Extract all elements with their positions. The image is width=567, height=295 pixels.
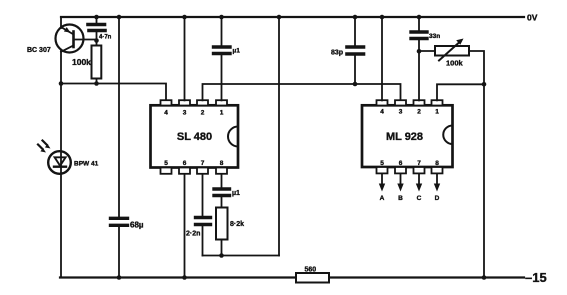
- pin box U2 top pin4: [377, 100, 388, 115]
- svg-text:1: 1: [435, 109, 439, 116]
- node junction dot rail/C1: [94, 15, 99, 20]
- svg-text:4·7n: 4·7n: [99, 34, 112, 40]
- node junction dot rail/pin3: [182, 15, 187, 20]
- node junction dot R2 bottom: [219, 253, 224, 258]
- pin box U2 top pin2: [414, 100, 425, 115]
- wire pot left lead: [419, 50, 435, 52]
- resistor R1 100k: [92, 41, 102, 84]
- svg-text:4: 4: [164, 109, 168, 116]
- node junction dot rail/C3: [219, 15, 224, 20]
- capacitor C7 33n: [411, 17, 427, 100]
- svg-text:8: 8: [220, 160, 224, 167]
- node junction dot C7 bottom / pot branch: [417, 49, 422, 54]
- svg-text:B: B: [398, 195, 403, 202]
- node junction dot 68u bottom rail: [117, 275, 122, 280]
- capacitor C6 83p: [347, 17, 364, 84]
- pin box U1 top pin3: [179, 100, 190, 116]
- wire -15 bottom rail: [60, 276, 524, 278]
- svg-text:µ1: µ1: [233, 48, 241, 55]
- wire U1 pin2 to U2 pin3 signal: [203, 84, 401, 100]
- svg-text:C: C: [417, 195, 422, 202]
- svg-text:3: 3: [183, 109, 187, 116]
- svg-text:68µ: 68µ: [130, 221, 144, 230]
- svg-text:2·2n: 2·2n: [186, 230, 200, 237]
- node junction dot rail/U2 pin4: [380, 15, 385, 20]
- wire 0V drop x279: [278, 17, 280, 256]
- svg-text:1: 1: [220, 109, 224, 116]
- wire decoupling net y255.5: [203, 255, 280, 257]
- resistor R3 560 in bottom rail: [296, 273, 329, 283]
- node junction dot rail/68u top: [117, 15, 122, 20]
- svg-text:83p: 83p: [331, 50, 343, 57]
- svg-text:5: 5: [380, 160, 384, 167]
- wire base lead to node: [75, 39, 97, 41]
- pin box U1 bottom pin5: [161, 160, 172, 174]
- svg-text:BC 307: BC 307: [27, 47, 51, 54]
- svg-text:ML 928: ML 928: [386, 131, 423, 143]
- node junction dot pot net rail: [482, 275, 487, 280]
- node junction dot collector net: [59, 81, 64, 86]
- capacitor C5 u1 on pin8: [214, 175, 230, 208]
- svg-text:560: 560: [305, 267, 317, 274]
- output arrow D pin8: [434, 175, 440, 203]
- wire U1 pin3 to 0V rail: [184, 17, 186, 100]
- svg-text:6: 6: [399, 160, 403, 167]
- pin box U2 top pin3: [395, 100, 406, 115]
- wire pot right to -15 rail: [469, 51, 484, 278]
- pin box U2 bottom pin7: [414, 160, 425, 173]
- svg-text:BPW 41: BPW 41: [74, 160, 99, 167]
- svg-text:D: D: [435, 195, 440, 202]
- svg-text:0V: 0V: [527, 13, 538, 23]
- photodiode D1 BPW41: [48, 84, 71, 278]
- svg-text:8·2k: 8·2k: [230, 221, 244, 228]
- svg-text:100k: 100k: [72, 57, 91, 67]
- svg-text:8: 8: [435, 160, 439, 167]
- svg-text:6: 6: [183, 160, 187, 167]
- svg-text:SL 480: SL 480: [177, 131, 212, 143]
- svg-text:4: 4: [380, 109, 384, 116]
- wire U2 pin4 to 0V rail: [381, 17, 383, 100]
- capacitor C3 u1 on pin1: [214, 17, 231, 100]
- light arrow 1: [38, 145, 46, 153]
- pin box U2 bottom pin8: [432, 160, 443, 173]
- wire U2 pin1 branch: [437, 84, 484, 100]
- svg-text:33n: 33n: [429, 33, 440, 40]
- node junction dot rail/C6: [353, 15, 358, 20]
- capacitor C2 68u vertical line: [111, 17, 128, 278]
- resistor R2 8.2k: [216, 208, 228, 256]
- wire 0V top rail: [61, 16, 524, 18]
- op-amp U1 SL480 body: [151, 105, 239, 167]
- output arrow A pin5: [379, 175, 385, 203]
- output arrow C pin7: [416, 175, 422, 203]
- pin box U2 bottom pin6: [395, 160, 406, 173]
- node junction dot pin6 rail: [182, 275, 187, 280]
- capacitor C1 4.7n: [88, 17, 105, 41]
- svg-text:2: 2: [417, 109, 421, 116]
- node junction dot C6 signal net: [353, 82, 358, 87]
- pin box U2 top pin1: [432, 100, 443, 115]
- transistor Q1 BC307: [56, 25, 84, 53]
- node junction dot pot net pin1: [482, 82, 487, 87]
- light arrow 2: [43, 141, 51, 149]
- pin box U1 top pin2: [197, 100, 208, 116]
- output arrow B pin6: [397, 175, 403, 203]
- svg-text:7: 7: [201, 160, 205, 167]
- svg-text:2: 2: [201, 109, 205, 116]
- op-amp U2 ML928 body: [362, 105, 453, 167]
- svg-text:100k: 100k: [446, 59, 464, 68]
- node junction dot base/C1/R1: [94, 38, 99, 43]
- wire U1 pin6 to bottom rail: [184, 175, 186, 278]
- node junction dot rail x279: [277, 15, 282, 20]
- wire left net horizontal y83.5 to SL480 pin4: [61, 84, 166, 101]
- pin box U1 top pin4: [161, 100, 172, 116]
- pin box U2 bottom pin5: [377, 160, 388, 173]
- pin box U1 bottom pin6: [179, 160, 190, 174]
- pin box U1 top pin1: [216, 100, 227, 116]
- pin box U1 bottom pin7: [197, 160, 208, 174]
- pin box U1 bottom pin8: [216, 160, 227, 174]
- svg-text:5: 5: [164, 160, 168, 167]
- svg-text:3: 3: [399, 109, 403, 116]
- capacitor C4 2.2n on pin7: [196, 175, 211, 256]
- wire emitter to 0V rail: [60, 17, 62, 28]
- svg-text:–15: –15: [525, 270, 547, 285]
- svg-text:7: 7: [417, 160, 421, 167]
- svg-text:µ1: µ1: [232, 190, 240, 197]
- svg-text:A: A: [380, 195, 385, 202]
- node junction dot R1 bottom: [94, 81, 99, 86]
- potentiometer P1 100k: [435, 39, 469, 61]
- node junction dot rail/C7: [417, 15, 422, 20]
- wire collector down to node: [60, 51, 62, 84]
